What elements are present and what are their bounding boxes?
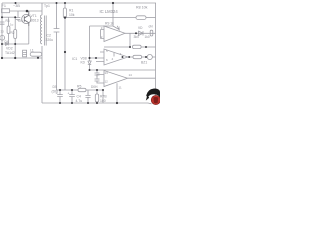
svg-text:1: 1: [119, 25, 121, 29]
wire base link: [18, 20, 22, 21]
svg-text:5: 5: [106, 49, 108, 53]
node Y: [59, 102, 61, 104]
node O: [95, 57, 97, 59]
svg-text:10k: 10k: [69, 13, 75, 17]
svg-text:VD: VD: [138, 26, 143, 30]
terminal pill: [150, 30, 153, 36]
transformer T1 core: [45, 16, 47, 46]
labels: [1, 4, 154, 103]
resistor R11: [133, 45, 142, 48]
svg-text:VT1: VT1: [31, 14, 37, 18]
svg-text:6: 6: [106, 58, 108, 62]
node F: [1, 57, 3, 59]
svg-text:100: 100: [100, 99, 106, 103]
capacitor C3 on border: [0, 22, 5, 24]
node K2: [129, 46, 131, 48]
svg-text:D4: D4: [5, 40, 9, 44]
node R0: [122, 56, 124, 58]
node A: [26, 10, 29, 13]
node H: [37, 57, 39, 59]
transformer T1 winding: [40, 3, 42, 103]
logo hat: [146, 89, 160, 98]
border top: [2, 2, 156, 4]
wire top rail y11: [10, 10, 43, 12]
svg-text:220u: 220u: [46, 38, 54, 42]
transistor VT1: [22, 14, 31, 23]
capacitor C1 plates: [16, 18, 21, 20]
svg-text:4: 4: [112, 57, 114, 61]
svg-text:1u: 1u: [10, 23, 14, 27]
svg-text:KD: KD: [81, 61, 86, 65]
resistor R7: [96, 90, 98, 94]
svg-text:D0H: D0H: [91, 85, 98, 89]
node B: [1, 16, 3, 18]
wire U1C out: [128, 77, 156, 79]
wire x113 from top: [112, 3, 114, 26]
op-amp U1A: [104, 26, 125, 42]
wire y58 left: [2, 57, 42, 59]
node AA: [87, 102, 89, 104]
node X: [116, 102, 118, 104]
node S: [145, 56, 147, 58]
diode VD7 slant: [113, 26, 120, 31]
wire vertical x56.5: [56, 3, 58, 90]
wire buzzer to border: [152, 56, 155, 58]
inductor L1: [30, 52, 42, 56]
border left: [1, 3, 3, 58]
node G: [14, 57, 16, 59]
resistor R5: [78, 88, 86, 91]
diode D4: [6, 43, 9, 46]
resistor R2: [14, 30, 17, 39]
capacitor C8: [69, 90, 75, 103]
pin stubs U1B: [90, 52, 105, 62]
svg-text:14: 14: [129, 73, 133, 77]
wire y44: [2, 43, 29, 45]
border right: [155, 3, 157, 95]
connector X1: [23, 50, 27, 57]
svg-text:BD13: BD13: [31, 19, 39, 23]
node R: [128, 56, 130, 58]
pin stubs U1A: [101, 30, 105, 39]
wire vertical x65: [64, 3, 66, 90]
node W: [102, 89, 104, 91]
svg-text:~3B: ~3B: [13, 4, 20, 8]
junction dots: [1, 2, 147, 104]
wire left col x15: [14, 17, 16, 58]
node J: [64, 51, 66, 53]
op-amp U1B: [104, 49, 128, 65]
node top x65: [64, 2, 66, 4]
svg-text:R9 1k: R9 1k: [105, 22, 114, 26]
svg-text:+: +: [56, 91, 58, 95]
fuse F1: [2, 9, 10, 13]
node U: [71, 89, 73, 91]
capacitor C6: [95, 75, 100, 84]
wire x103 down: [102, 90, 104, 103]
svg-text:1k0: 1k0: [145, 35, 150, 39]
svg-text:+: +: [68, 91, 70, 95]
node D: [1, 43, 3, 45]
wire y17 left: [2, 16, 15, 18]
wire r8 to border: [146, 17, 156, 19]
wire y90: [57, 89, 104, 91]
wire cap drop x18: [17, 11, 19, 17]
svg-text:oN: oN: [149, 25, 154, 29]
svg-text:IC1: IC1: [72, 57, 77, 61]
logo red ball: [151, 95, 160, 104]
node C: [14, 16, 16, 18]
node V: [96, 89, 98, 91]
resistor R3 mid: [8, 17, 10, 26]
logo glyph: [153, 97, 158, 103]
node N: [89, 57, 91, 59]
node Z: [71, 102, 73, 104]
node M: [89, 57, 91, 59]
svg-text:Tp1: Tp1: [44, 4, 50, 8]
node P: [89, 69, 91, 71]
wire to buzzer: [142, 56, 148, 58]
svg-text:4.7u: 4.7u: [76, 99, 83, 103]
node E: [14, 43, 16, 45]
wire r11 to border: [141, 46, 155, 48]
svg-text:13: 13: [105, 71, 109, 75]
node top x15: [15, 2, 17, 4]
svg-text:12: 12: [105, 79, 109, 83]
pin stubs U1C: [97, 75, 105, 84]
svg-text:TA142: TA142: [5, 51, 15, 55]
ground rail y103: [42, 102, 148, 104]
node Q: [96, 69, 98, 71]
logo tassel: [146, 95, 149, 100]
node AB: [96, 102, 98, 104]
wire fb A1: [104, 33, 130, 47]
svg-text:11: 11: [119, 86, 122, 90]
svg-text:7: 7: [120, 52, 122, 56]
wire bus x89.5: [89, 26, 91, 61]
diode VD8 in bus: [88, 61, 91, 65]
node T: [59, 89, 61, 91]
pin4 wire: [113, 53, 115, 57]
wire to logo: [148, 102, 152, 105]
wire pin11 down: [116, 83, 118, 103]
wire U1A out: [125, 32, 156, 34]
lamp HL1: [0, 35, 5, 40]
svg-text:BZ1: BZ1: [141, 61, 147, 65]
svg-text:R2: R2: [11, 31, 15, 35]
logo stamp: [146, 89, 161, 105]
wire y26: [90, 25, 114, 27]
node K: [135, 32, 137, 34]
capacitor C7: [57, 90, 63, 103]
svg-text:R8 10k: R8 10k: [136, 6, 148, 10]
capacitor C5: [95, 70, 100, 77]
node top x113: [112, 2, 114, 4]
svg-text:IC LM324: IC LM324: [100, 9, 119, 14]
svg-text:30: 30: [1, 30, 5, 34]
resistor R9: [133, 55, 142, 58]
svg-text:L1: L1: [30, 49, 34, 53]
diode VD9: [139, 31, 144, 35]
node I: [64, 16, 66, 18]
wire U1B out: [128, 56, 133, 58]
resistor R8: [136, 16, 146, 20]
op-amp U1C: [104, 71, 128, 87]
capacitor C2 plates: [54, 29, 60, 32]
svg-text:3k0: 3k0: [134, 35, 140, 39]
capacitor C4: [85, 90, 90, 103]
wire y70 long: [90, 69, 156, 71]
buzzer BZ1: [147, 54, 152, 59]
wire y17.5 long: [65, 17, 136, 19]
wire emitter down: [28, 26, 30, 44]
node L2: [145, 46, 147, 48]
svg-text:F1: F1: [2, 4, 6, 8]
node top x56: [56, 2, 58, 4]
svg-text:R5: R5: [77, 85, 81, 89]
resistor R1: [63, 8, 66, 18]
